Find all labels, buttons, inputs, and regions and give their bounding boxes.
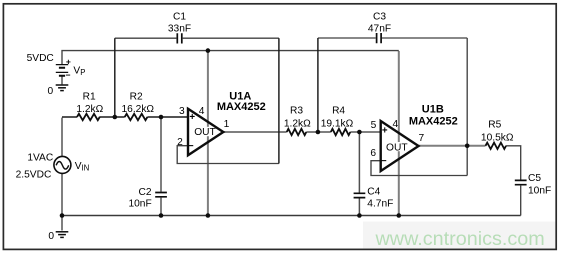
svg-text:C4: C4 — [367, 186, 380, 197]
svg-text:0: 0 — [48, 86, 54, 97]
svg-text:2: 2 — [177, 137, 183, 148]
svg-text:R5: R5 — [488, 120, 501, 131]
svg-text:16.2kΩ: 16.2kΩ — [122, 104, 155, 115]
svg-text:MAX4252: MAX4252 — [409, 116, 458, 128]
svg-text:OUT: OUT — [194, 127, 216, 138]
svg-text:R4: R4 — [332, 106, 345, 117]
svg-text:−: − — [188, 141, 194, 152]
svg-text:10nF: 10nF — [528, 185, 551, 196]
svg-text:R3: R3 — [290, 106, 303, 117]
svg-text:10nF: 10nF — [128, 199, 151, 210]
svg-text:1: 1 — [224, 119, 230, 130]
svg-text:4: 4 — [199, 106, 205, 117]
svg-text:5: 5 — [371, 120, 377, 131]
svg-text:4.7nF: 4.7nF — [367, 199, 393, 210]
svg-text:+: + — [382, 126, 388, 137]
svg-text:R1: R1 — [83, 91, 96, 102]
svg-text:MAX4252: MAX4252 — [217, 101, 266, 113]
svg-text:C5: C5 — [528, 173, 541, 184]
svg-text:VIN: VIN — [75, 161, 90, 172]
svg-text:C3: C3 — [373, 12, 386, 23]
svg-text:1.2kΩ: 1.2kΩ — [76, 104, 103, 115]
svg-text:+: + — [66, 56, 71, 66]
svg-text:33nF: 33nF — [168, 24, 191, 35]
svg-text:OUT: OUT — [386, 143, 408, 154]
svg-text:1.2kΩ: 1.2kΩ — [284, 118, 311, 129]
svg-text:0: 0 — [48, 231, 54, 242]
svg-text:−: − — [66, 70, 71, 80]
svg-text:6: 6 — [370, 148, 376, 159]
svg-text:5VDC: 5VDC — [27, 53, 54, 64]
svg-text:10.5kΩ: 10.5kΩ — [481, 132, 514, 143]
svg-text:7: 7 — [418, 133, 424, 144]
svg-text:www.cntronics.com: www.cntronics.com — [375, 228, 545, 250]
svg-text:3: 3 — [179, 106, 185, 117]
svg-text:R2: R2 — [130, 91, 143, 102]
svg-text:4: 4 — [392, 119, 398, 130]
svg-text:C2: C2 — [138, 187, 151, 198]
svg-text:−: − — [381, 156, 387, 167]
svg-text:+: + — [189, 112, 195, 123]
svg-text:1VAC: 1VAC — [27, 153, 53, 164]
svg-text:19.1kΩ: 19.1kΩ — [321, 118, 354, 129]
svg-text:VP: VP — [73, 65, 85, 76]
svg-text:2.5VDC: 2.5VDC — [16, 170, 52, 181]
svg-text:U1B: U1B — [422, 104, 444, 116]
svg-text:47nF: 47nF — [368, 24, 391, 35]
svg-text:C1: C1 — [173, 12, 186, 23]
